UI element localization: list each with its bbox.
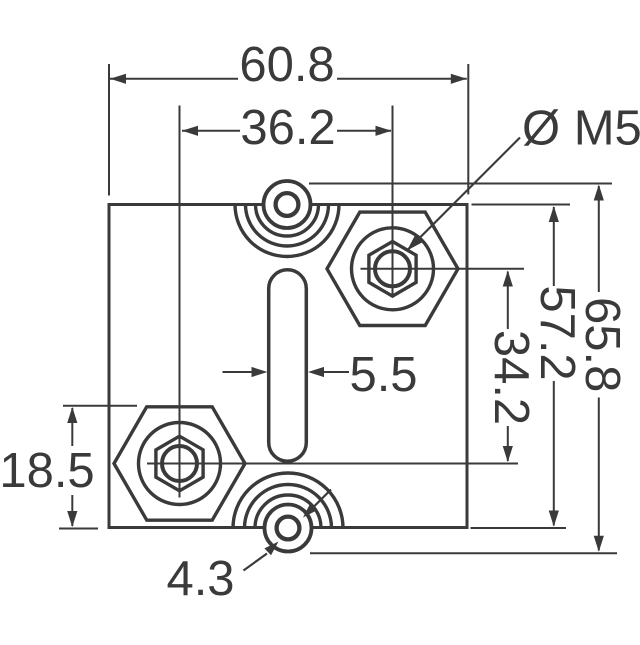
hex bolt bottom: washer circle	[139, 423, 221, 505]
body outline	[109, 205, 467, 528]
hex bolt top: washer circle	[352, 228, 434, 310]
dim 18.5 arrows	[71, 408, 73, 446]
centerline vertical bottom bolt	[179, 106, 181, 498]
svg-text:34.2: 34.2	[484, 330, 538, 425]
dim 57.2 line	[553, 207, 555, 286]
leader M5	[408, 138, 520, 250]
svg-text:18.5: 18.5	[0, 444, 95, 498]
dim 5.5 arrows	[223, 371, 254, 373]
hex bolt bottom: nut hexagon	[156, 436, 203, 491]
top mounting hole outer circle	[264, 181, 311, 228]
centerline horizontal top bolt	[361, 268, 525, 270]
slot	[269, 270, 307, 462]
svg-text:36.2: 36.2	[240, 101, 335, 155]
centerline vertical top bolt	[392, 106, 394, 298]
dim 65.8 line	[598, 186, 600, 292]
hex bolt top: outer hexagon	[327, 212, 458, 325]
dim 57.2 extension bottom	[471, 527, 567, 529]
bottom mounting hole outer circle	[265, 505, 312, 552]
label 57.2	[530, 285, 584, 380]
leader 4.3 upper	[312, 490, 331, 509]
dim 36.2 line	[182, 130, 240, 132]
hex bolt bottom: outer hexagon	[114, 407, 245, 520]
countersink arcs bottom hole	[233, 473, 343, 583]
countersink arcs top hole	[235, 153, 339, 257]
svg-text:4.3: 4.3	[166, 552, 234, 606]
dim 65.8 extension bottom	[310, 552, 617, 554]
label 65.8	[575, 297, 629, 392]
centerline horizontal bottom bolt	[147, 463, 518, 465]
hex bolt top: thread circle	[375, 251, 410, 286]
dim 18.5 extension top	[63, 405, 137, 407]
leader 4.3 lower	[244, 554, 268, 571]
top mounting hole inner circle	[276, 193, 299, 216]
dim 60.8 extension right	[467, 64, 469, 194]
bottom mounting hole inner circle	[277, 517, 300, 540]
dim 60.8 line	[110, 78, 238, 80]
svg-text:5.5: 5.5	[349, 348, 417, 402]
label 34.2	[484, 330, 538, 425]
dim 57.2 extension top	[472, 204, 571, 206]
hex bolt bottom: thread circle	[162, 446, 197, 481]
dim 34.2 line	[507, 272, 509, 330]
svg-text:60.8: 60.8	[239, 38, 334, 92]
dim 18.5 extension bottom	[59, 528, 98, 530]
dim 65.8 extension top	[309, 183, 612, 185]
hex bolt top: nut hexagon	[369, 242, 416, 297]
dim 60.8 extension left	[108, 64, 110, 196]
svg-text:Ø M5: Ø M5	[522, 102, 640, 156]
